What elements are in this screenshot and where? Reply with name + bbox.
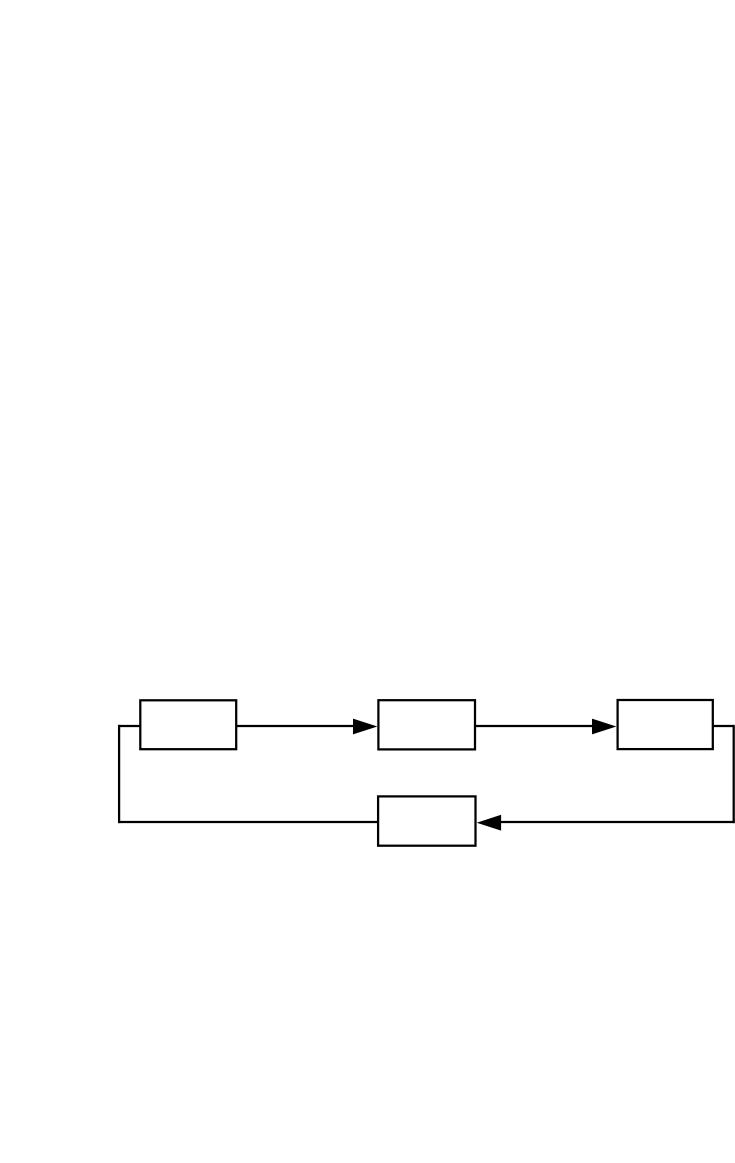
wire B3 right to feedback corner — [713, 725, 734, 727]
block box B4 (bottom-middle feedback box) — [378, 796, 475, 845]
arrowhead into B4 (pointing left) — [477, 815, 501, 831]
wire feedback left vertical — [118, 725, 120, 823]
wire B2 to B3 — [475, 725, 594, 727]
block box B3 (top-right process box) — [618, 700, 713, 749]
wire B1 to B2 — [236, 725, 355, 727]
arrowhead into B3 — [592, 719, 616, 735]
arrowhead into B2 — [353, 719, 377, 735]
wire B4 left to feedback corner — [118, 821, 378, 823]
block box B2 (top-middle process box) — [378, 700, 475, 749]
wire feedback left top horizontal into B1 — [118, 725, 140, 727]
wire feedback right vertical — [733, 725, 735, 823]
wire feedback bottom right horizontal to B4 — [498, 821, 735, 823]
block box B1 (top-left process box) — [140, 700, 236, 749]
